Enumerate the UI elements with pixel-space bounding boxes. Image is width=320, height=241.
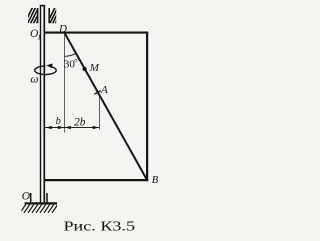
point A tick [94, 91, 100, 95]
arrowhead left into ref line (2b) [64, 126, 71, 129]
svg-text:Рис. К3.5: Рис. К3.5 [64, 219, 136, 234]
frame top bar D-corner [45, 32, 149, 34]
frame right bar [146, 32, 148, 182]
thin vertical reference line from D [63, 34, 65, 133]
diagonal rod D-B [65, 33, 148, 180]
omega arrowhead [46, 64, 52, 69]
frame bottom bar [45, 179, 149, 181]
svg-text:b: b [56, 116, 61, 127]
top bearing: right block inner wall [48, 8, 50, 23]
svg-text:2b: 2b [74, 116, 86, 128]
top bearing: right hatched block [47, 7, 64, 25]
svg-text:o: o [74, 57, 77, 64]
arrowhead left at shaft [45, 126, 52, 129]
svg-text:A: A [100, 84, 108, 96]
svg-text:ω: ω [30, 74, 38, 86]
arrowhead right into ref line (b) [58, 126, 65, 129]
top bearing: left block inner wall [37, 8, 39, 23]
ground hatching [20, 204, 58, 213]
svg-text:B: B [152, 175, 159, 186]
arrowhead right at extension line [93, 126, 100, 129]
paper background [0, 0, 188, 241]
omega rotation arrow [35, 66, 57, 74]
svg-text:1: 1 [37, 33, 41, 42]
svg-text:M: M [89, 62, 100, 74]
point M dot [83, 67, 87, 71]
dimension line [45, 127, 99, 129]
svg-text:O: O [22, 191, 31, 203]
shaft O-O1 (vertical rod, two lines) [40, 5, 45, 203]
top bearing: left hatched block [24, 7, 45, 25]
ground line [25, 202, 57, 204]
bottom socket walls [30, 193, 32, 203]
extension line below A [98, 95, 100, 129]
30 degree arc [65, 53, 77, 56]
